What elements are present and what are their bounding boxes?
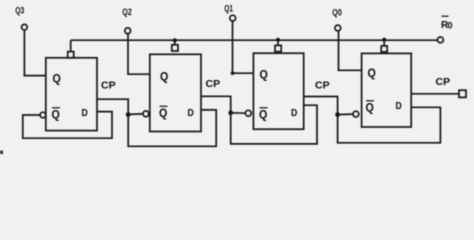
wire stem FF4 top pin — [383, 40, 385, 46]
svg-text:Q2: Q2 — [122, 7, 132, 18]
flip-flop FF2 box — [150, 54, 201, 131]
overline Qbar FF1 — [52, 107, 60, 109]
node corner dot Q1 wire — [231, 71, 235, 75]
svg-text:Q: Q — [52, 108, 60, 122]
flip-flop FF1 box — [46, 58, 97, 131]
wire Q2 to FF2 Q output — [128, 34, 150, 74]
svg-text:0: 0 — [448, 21, 453, 31]
wire FF2 Qbar from bubble to junction — [128, 113, 143, 116]
wire Q0 to FF4 Q output — [339, 31, 362, 70]
wire FF3 Qbar feedback loop to D — [231, 105, 317, 144]
svg-text:CP: CP — [101, 80, 116, 92]
pin square Rd FF1 — [68, 52, 74, 58]
svg-text:Q3: Q3 — [15, 5, 24, 16]
terminal Q0 — [335, 25, 341, 31]
wire Q3 to FF1 Q output — [24, 30, 45, 76]
wire stem FF3 top pin — [277, 40, 279, 46]
svg-text:Q0: Q0 — [332, 7, 342, 18]
wire FF2 Qbar feedback loop to D — [128, 110, 216, 146]
terminal R0 reset — [438, 37, 444, 43]
svg-text:CP: CP — [315, 80, 330, 92]
bubble FF2 Qbar output — [143, 111, 149, 117]
wire FF1 Qbar feedback loop to D — [23, 112, 112, 139]
svg-text:D: D — [188, 107, 195, 119]
pin square Rd FF2 — [172, 45, 178, 51]
wire CP1: FF1 clock from FF2 Qbar node — [97, 99, 128, 114]
pin square Rd FF4 — [381, 46, 387, 52]
svg-text:Q: Q — [159, 106, 167, 120]
terminal Q2 — [125, 28, 131, 34]
node junction dot bus-FF3 — [276, 38, 280, 42]
overline Qbar FF4 — [366, 100, 374, 102]
svg-text:Q: Q — [160, 70, 168, 84]
svg-text:D: D — [291, 107, 298, 119]
svg-text:D: D — [82, 107, 89, 119]
node junction dot FF3 Qbar — [228, 110, 233, 115]
wire FF3 Qbar from bubble to junction — [231, 112, 246, 114]
bubble FF1 Qbar output — [40, 112, 46, 118]
overline R0 — [442, 15, 449, 17]
node junction dot bus-FF4 — [382, 38, 386, 42]
reset bus wire (top horizontal to R0 terminal) — [71, 39, 438, 41]
wire stem FF1 top pin — [70, 40, 72, 51]
svg-text:Q: Q — [366, 101, 374, 115]
svg-text:Q: Q — [260, 68, 268, 82]
bubble FF4 Qbar output — [353, 111, 359, 117]
node junction dot FF2 Qbar — [126, 112, 131, 117]
svg-text:CP: CP — [206, 78, 221, 90]
overline Qbar FF2 — [160, 105, 168, 107]
node junction dot bus-FF2 — [173, 38, 177, 42]
node junction dot FF4 Qbar — [335, 112, 340, 117]
flip-flop FF4 box — [362, 53, 412, 127]
svg-text:CP: CP — [436, 76, 451, 88]
terminal CP input square — [459, 90, 466, 97]
terminal Q1 — [230, 15, 236, 21]
wire CP2: FF2 clock from FF3 Qbar node — [201, 96, 231, 113]
wire CP4: FF4 clock from external CP terminal — [411, 93, 459, 95]
wire Q1 to FF3 Q output — [233, 21, 254, 73]
bubble FF3 Qbar output — [245, 110, 251, 116]
flip-flop FF3 box — [253, 53, 303, 129]
wire CP3: FF3 clock from FF4 Qbar node — [304, 97, 338, 115]
pin square Rd FF3 — [275, 45, 281, 51]
wire FF4 Qbar feedback loop to D — [338, 107, 441, 143]
wire FF4 Qbar from bubble to junction — [338, 113, 353, 116]
svg-text:Q: Q — [259, 108, 267, 122]
stray mark bottom-left corner — [0, 151, 3, 154]
overline Qbar FF3 — [260, 107, 268, 109]
svg-text:Q: Q — [368, 66, 376, 80]
svg-text:Q1: Q1 — [224, 3, 233, 14]
svg-text:D: D — [396, 100, 403, 112]
terminal Q3 — [22, 24, 28, 30]
wire stem FF2 top pin — [174, 40, 176, 45]
svg-text:Q: Q — [53, 72, 61, 86]
